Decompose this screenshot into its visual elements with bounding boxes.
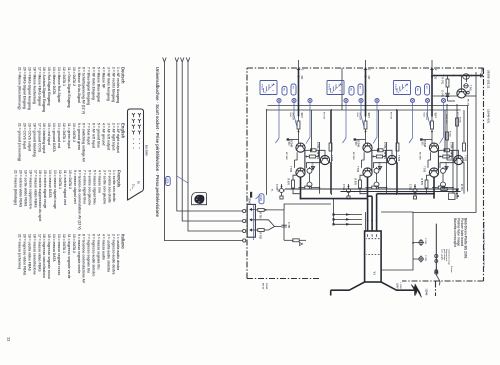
junction red lane <box>300 198 302 200</box>
pad focus 1 <box>435 254 438 257</box>
wire to SCART 3 <box>186 58 242 232</box>
svg-text:18 = Masse Austastung: 18 = Masse Austastung <box>32 67 36 104</box>
svg-text:10 = DATA 2: 10 = DATA 2 <box>72 123 76 142</box>
emblem logo blob <box>194 195 204 204</box>
svg-text:4 = Masse NF: 4 = Masse NF <box>101 67 105 88</box>
svg-text:4 = massa audio: 4 = massa audio <box>101 234 105 260</box>
junction screen loop <box>412 242 414 244</box>
svg-text:17 = masse vidéo FBAS: 17 = masse vidéo FBAS <box>33 170 37 208</box>
svg-text:12 = DATA 1: 12 = DATA 1 <box>62 234 66 253</box>
wire channel 1 divider <box>265 109 267 195</box>
svg-text:18 = massa cancellazione: 18 = massa cancellazione <box>32 234 36 275</box>
capacitor C781 <box>281 225 286 227</box>
wire supply rail <box>285 188 459 190</box>
svg-text:3 = NF links Ausgang: 3 = NF links Ausgang <box>106 67 110 101</box>
svg-text:C 781: C 781 <box>287 222 290 229</box>
wire to R783 <box>284 239 293 241</box>
svg-text:1 = NF rechts Ausgang: 1 = NF rechts Ausgang <box>116 67 120 103</box>
resistor R744 <box>441 188 447 191</box>
svg-text:13 = massa segnale rosso: 13 = massa segnale rosso <box>57 234 61 275</box>
capacitor C741 <box>464 84 468 88</box>
svg-text:21 = Masse (Abschirmung): 21 = Masse (Abschirmung) <box>18 67 22 109</box>
svg-text:Français: Français <box>117 170 122 188</box>
diode D741 <box>446 93 450 96</box>
wire to SCART 1 <box>175 58 243 212</box>
svg-text:12043: 12043 <box>248 198 251 205</box>
svg-text:18 = ground blanking: 18 = ground blanking <box>32 123 36 157</box>
spark gap FS741 <box>463 74 470 79</box>
svg-text:29305-102.11: 29305-102.11 <box>487 70 491 89</box>
svg-text:8 = tension de commutation AV: 8 = tension de commutation AV (12 V) <box>78 170 82 230</box>
svg-text:19 = sortie vidéo FBAS: 19 = sortie vidéo FBAS <box>24 170 28 207</box>
wire screen grid loop <box>381 212 413 270</box>
socket pin 8 <box>132 131 135 135</box>
wire spark gap leads <box>413 243 419 260</box>
wire anode stub <box>435 282 437 297</box>
wire focus line <box>435 224 437 275</box>
wire ground return <box>284 204 331 210</box>
resistor R741 <box>446 79 449 87</box>
wire inner frame line 2 <box>266 109 460 111</box>
svg-text:19 = uscita video FBAS: 19 = uscita video FBAS <box>28 234 32 272</box>
socket contact row 1 <box>366 238 380 240</box>
wire supply feed T741 <box>433 75 483 77</box>
wire contact 1 to R781 <box>256 210 284 240</box>
junction grid bus 1 <box>332 213 334 215</box>
socket pin 6 <box>132 125 135 129</box>
wire supply spur channel 2 <box>341 68 343 110</box>
svg-text:21 = masse (blindage): 21 = masse (blindage) <box>14 170 18 205</box>
arrow grid return 1 <box>346 213 350 216</box>
wire cathode drives RGB <box>368 194 377 231</box>
svg-text:10 = DATA 2: 10 = DATA 2 <box>72 67 76 86</box>
svg-text:12 = DATA 1: 12 = DATA 1 <box>62 67 66 86</box>
wire blue output lane <box>377 193 434 195</box>
svg-text:12040-031: 12040-031 <box>487 109 491 124</box>
svg-text:20 = CCVS input: 20 = CCVS input <box>23 123 27 150</box>
svg-text:9 = Masse Grün-Signal: 9 = Masse Grün-Signal <box>77 67 81 103</box>
svg-text:3 = uscita audio sinistra: 3 = uscita audio sinistra <box>106 234 110 272</box>
junction drive R <box>376 220 378 222</box>
svg-text:1 = AF right output: 1 = AF right output <box>116 123 120 154</box>
junction drive G <box>371 220 373 222</box>
wire green output lane <box>368 195 373 197</box>
svg-text:2 = entrée son droite: 2 = entrée son droite <box>107 170 111 203</box>
svg-text:14 = massa DATA: 14 = massa DATA <box>52 234 56 262</box>
junction drive B <box>367 220 369 222</box>
connector contacts <box>252 210 256 231</box>
terminal ring 2 <box>243 219 246 222</box>
svg-text:6 = AF left input: 6 = AF left input <box>92 123 96 149</box>
svg-text:17 = Masse FBAS-Signal: 17 = Masse FBAS-Signal <box>37 67 41 106</box>
svg-text:7 = blue input: 7 = blue input <box>87 123 91 146</box>
svg-text:14 = masse DATA: 14 = masse DATA <box>48 170 52 198</box>
svg-text:(CD): (CD) <box>259 195 263 201</box>
svg-text:11 = ingresso segnale verde: 11 = ingresso segnale verde <box>67 234 71 279</box>
svg-text:8 = switching voltage AV: 8 = switching voltage AV <box>82 123 86 163</box>
svg-text:6 = ingresso audio sinistro: 6 = ingresso audio sinistro <box>92 234 96 276</box>
svg-text:14 = ground DATA: 14 = ground DATA <box>52 123 56 152</box>
relay K744 <box>449 193 456 200</box>
svg-text:12040: 12040 <box>425 289 428 296</box>
svg-text:13 = Masse Rot-Signal: 13 = Masse Rot-Signal <box>57 67 61 102</box>
svg-text:Italiano: Italiano <box>121 234 126 249</box>
resistor R781 <box>258 208 264 211</box>
test pad T741 <box>467 91 470 94</box>
svg-text:tens. griglia: tens. griglia <box>441 249 444 261</box>
socket pin 2 <box>132 113 135 117</box>
svg-text:20 = ingresso video FBAS: 20 = ingresso video FBAS <box>23 234 27 276</box>
svg-text:19 = CCVS output: 19 = CCVS output <box>28 123 32 152</box>
svg-text:11 = entrée signal vert: 11 = entrée signal vert <box>63 170 67 206</box>
svg-text:16 = ingresso cancellazione: 16 = ingresso cancellazione <box>42 234 46 278</box>
svg-text:7 = ingresso segnale blu: 7 = ingresso segnale blu <box>87 234 91 273</box>
wire T741 emitter <box>433 95 457 97</box>
svg-text:(CD): (CD) <box>166 178 169 183</box>
wire blue jumper <box>177 176 188 183</box>
svg-text:15 = ingresso segnale rosso: 15 = ingresso segnale rosso <box>47 234 51 279</box>
arrow grid return 3 <box>346 223 350 226</box>
svg-text:12 = DATA 1: 12 = DATA 1 <box>58 170 62 189</box>
svg-text:5 = ground blue: 5 = ground blue <box>97 123 101 148</box>
svg-text:R 744: R 744 <box>460 184 463 191</box>
junction green lane <box>367 195 369 197</box>
socket pin marks <box>368 234 377 237</box>
spark gap C784 <box>419 240 423 245</box>
emblem box <box>192 192 207 204</box>
net label CD blue <box>259 194 264 204</box>
resistor R783 <box>293 239 299 242</box>
spark gap C785 <box>419 257 423 262</box>
board outline top edge <box>483 68 485 281</box>
svg-text:4 = AF ground: 4 = AF ground <box>101 123 105 145</box>
svg-text:R 781: R 781 <box>259 212 262 219</box>
wire channel 3 divider <box>396 109 398 195</box>
ground arrow symbol <box>300 242 303 245</box>
svg-text:21 = massa (schermo): 21 = massa (schermo) <box>18 234 22 269</box>
svg-text:8 = tensione commutazione AV: 8 = tensione commutazione AV <box>82 234 86 284</box>
net label CD on wire <box>166 177 171 186</box>
svg-text:C 784: C 784 <box>424 238 427 245</box>
socket pin 4 <box>132 119 135 123</box>
socket contact row 2 <box>366 254 380 256</box>
svg-text:D 741: D 741 <box>441 91 444 98</box>
wire grid return lines <box>333 215 362 225</box>
pad focus 2 <box>435 271 438 274</box>
board outline bottom edge <box>246 68 248 279</box>
svg-text:(160 V): (160 V) <box>396 283 399 291</box>
connector edge block <box>247 204 255 237</box>
transistor T741 <box>457 89 466 98</box>
terminal ring 4 <box>243 239 246 242</box>
svg-text:15 = entrée signal rouge: 15 = entrée signal rouge <box>43 170 47 209</box>
wire grid bus <box>333 199 335 225</box>
board outline left edge <box>247 67 484 69</box>
svg-text:10 = DATA 2: 10 = DATA 2 <box>72 234 76 253</box>
svg-text:9 = massa segnale verde: 9 = massa segnale verde <box>77 234 81 273</box>
svg-text:2 = AF right input: 2 = AF right input <box>111 123 115 151</box>
picture tube bell upper <box>381 282 415 296</box>
high voltage lightning symbol <box>411 284 421 297</box>
resistor R742 <box>456 118 459 126</box>
svg-text:7 = entrée signal bleu: 7 = entrée signal bleu <box>83 170 87 204</box>
svg-text:R 782: R 782 <box>259 233 262 240</box>
svg-text:13 = masse signal rouge: 13 = masse signal rouge <box>53 170 57 209</box>
wire grid supply line <box>413 72 476 212</box>
svg-text:Universalbuchse · Scart socket: Universalbuchse · Scart socket · Prise p… <box>155 67 160 218</box>
svg-text:18 = masse suppression: 18 = masse suppression <box>28 170 32 209</box>
svg-text:T 741: T 741 <box>469 85 472 92</box>
svg-text:2 = NF rechts Eingang: 2 = NF rechts Eingang <box>111 67 115 102</box>
resistor R782 <box>258 229 264 232</box>
svg-text:12 = DATA 1: 12 = DATA 1 <box>62 123 66 142</box>
svg-text:12040: 12040 <box>265 283 268 290</box>
svg-text:C 785: C 785 <box>424 255 426 262</box>
svg-text:BU 2000: BU 2000 <box>145 145 149 156</box>
wire red output lane <box>301 198 368 200</box>
SCART socket outline <box>128 109 144 200</box>
svg-text:1 = uscita audio destra: 1 = uscita audio destra <box>116 234 120 270</box>
board outline right edge lower <box>247 278 319 280</box>
svg-text:11 = Grün-Signal Eingang: 11 = Grün-Signal Eingang <box>67 67 71 108</box>
contact arrow 1 <box>249 208 252 211</box>
svg-text:Änderungen vorbehalten · Print: Änderungen vorbehalten · Printed in Germ… <box>483 222 486 268</box>
svg-text:11 = green input: 11 = green input <box>67 123 71 149</box>
svg-text:Deutsch: Deutsch <box>121 67 126 84</box>
svg-text:BU 12: BU 12 <box>262 283 264 290</box>
svg-text:V1: V1 <box>372 272 376 276</box>
wire R742 branch <box>456 104 458 199</box>
wire focus exit hook <box>436 275 440 286</box>
svg-text:3 = sortie son gauche: 3 = sortie son gauche <box>102 170 106 204</box>
junction supply feed <box>471 75 473 77</box>
socket pin 1 <box>138 113 141 117</box>
svg-text:English: English <box>121 123 126 139</box>
svg-text:20 = FBAS-Signal Eingang: 20 = FBAS-Signal Eingang <box>23 67 27 109</box>
wire contact 3 <box>256 227 275 231</box>
solder pad block <box>250 192 252 198</box>
svg-text:4 = masse son: 4 = masse son <box>97 170 101 193</box>
wire contact 2 <box>256 220 281 227</box>
svg-text:17 = massa video FBAS: 17 = massa video FBAS <box>37 234 41 272</box>
junction grid bus 2 <box>332 218 334 220</box>
svg-text:13 = ground red: 13 = ground red <box>57 123 61 148</box>
svg-text:6 = entrée son gauche: 6 = entrée son gauche <box>88 170 92 205</box>
svg-text:Focus: Focus <box>450 266 452 273</box>
svg-text:15 = Rot-Signal Eingang: 15 = Rot-Signal Eingang <box>47 67 51 105</box>
svg-text:9 = masse signal vert: 9 = masse signal vert <box>73 170 77 205</box>
svg-text:R 743: R 743 <box>449 131 452 137</box>
socket pin 7 <box>138 131 141 135</box>
arrow grid return 2 <box>346 218 350 221</box>
wire to SCART 4 <box>163 58 243 241</box>
svg-text:17 = ground CCVS: 17 = ground CCVS <box>37 123 41 153</box>
wire R743 branch <box>447 104 457 160</box>
svg-text:BU 250: BU 250 <box>467 99 469 107</box>
junction grid bus 3 <box>332 223 334 225</box>
svg-text:16 = blanking input: 16 = blanking input <box>42 123 46 154</box>
terminal ring 3 <box>243 229 246 232</box>
junction R781 <box>265 209 267 211</box>
wire top frame line <box>467 106 469 192</box>
board outline right edge upper <box>402 280 484 282</box>
svg-text:3 = AF left output: 3 = AF left output <box>106 123 110 151</box>
wire T741 base <box>461 76 463 89</box>
svg-text:15 = red input: 15 = red input <box>47 123 51 146</box>
wire T741 collector <box>466 95 476 97</box>
contact arrow 3 <box>249 228 252 231</box>
svg-text:8 = Schaltspannung AV (12 V): 8 = Schaltspannung AV (12 V) <box>82 67 86 114</box>
wire R783 top <box>299 239 306 241</box>
svg-text:7 = Blau-Signal Eingang: 7 = Blau-Signal Eingang <box>87 67 91 105</box>
channel 1 red amplifier <box>260 60 333 199</box>
socket pin 5 <box>138 125 141 129</box>
contact arrow 2 <box>249 218 252 221</box>
socket pin 3 <box>138 119 141 123</box>
svg-text:10 = DATA 2: 10 = DATA 2 <box>68 170 72 189</box>
svg-text:L 2360: L 2360 <box>399 283 401 290</box>
svg-text:9 = ground green: 9 = ground green <box>77 123 81 150</box>
svg-text:16 = Austast-Signal Eingang: 16 = Austast-Signal Eingang <box>42 67 46 112</box>
junction blue lane <box>433 193 435 195</box>
svg-text:16 = entrée suppression du spo: 16 = entrée suppression du spot <box>38 170 42 222</box>
resistor R743 <box>446 132 449 140</box>
svg-text:2 = ingresso audio destra: 2 = ingresso audio destra <box>111 234 115 275</box>
terminal ring 1 <box>243 209 246 212</box>
diode D741 <box>447 91 449 102</box>
wire channel 2 divider <box>331 109 333 195</box>
svg-text:5 = massa segnale blu: 5 = massa segnale blu <box>97 234 101 269</box>
svg-text:5 = Masse Blau-Signal: 5 = Masse Blau-Signal <box>97 67 101 102</box>
svg-text:21 = ground (screening): 21 = ground (screening) <box>18 123 22 161</box>
wire to SCART 2 <box>180 58 242 222</box>
svg-text:20 = entrée vidéo FBAS: 20 = entrée vidéo FBAS <box>19 170 23 208</box>
wire ground rail <box>341 191 461 193</box>
tube socket V1 <box>365 231 382 282</box>
channel 2 green amplifier <box>327 60 400 199</box>
svg-text:19 = FBAS-Signal Ausgang: 19 = FBAS-Signal Ausgang <box>28 67 32 110</box>
wire CD blue link <box>253 204 255 240</box>
svg-text:1 = sortie son droite: 1 = sortie son droite <box>112 170 116 202</box>
svg-text:5 = masse signal bleu: 5 = masse signal bleu <box>93 170 97 204</box>
wire grid link <box>365 212 367 231</box>
svg-text:6 = NF links Eingang: 6 = NF links Eingang <box>92 67 96 100</box>
svg-text:R 741: R 741 <box>441 78 444 85</box>
wire inner frame line 1 <box>268 105 468 107</box>
svg-text:14 = Masse DATA: 14 = Masse DATA <box>52 67 56 95</box>
picture tube bell lower <box>331 282 365 296</box>
channel 3 blue amplifier <box>394 60 467 199</box>
svg-text:Basetta cinescopio: Basetta cinescopio <box>453 218 457 247</box>
